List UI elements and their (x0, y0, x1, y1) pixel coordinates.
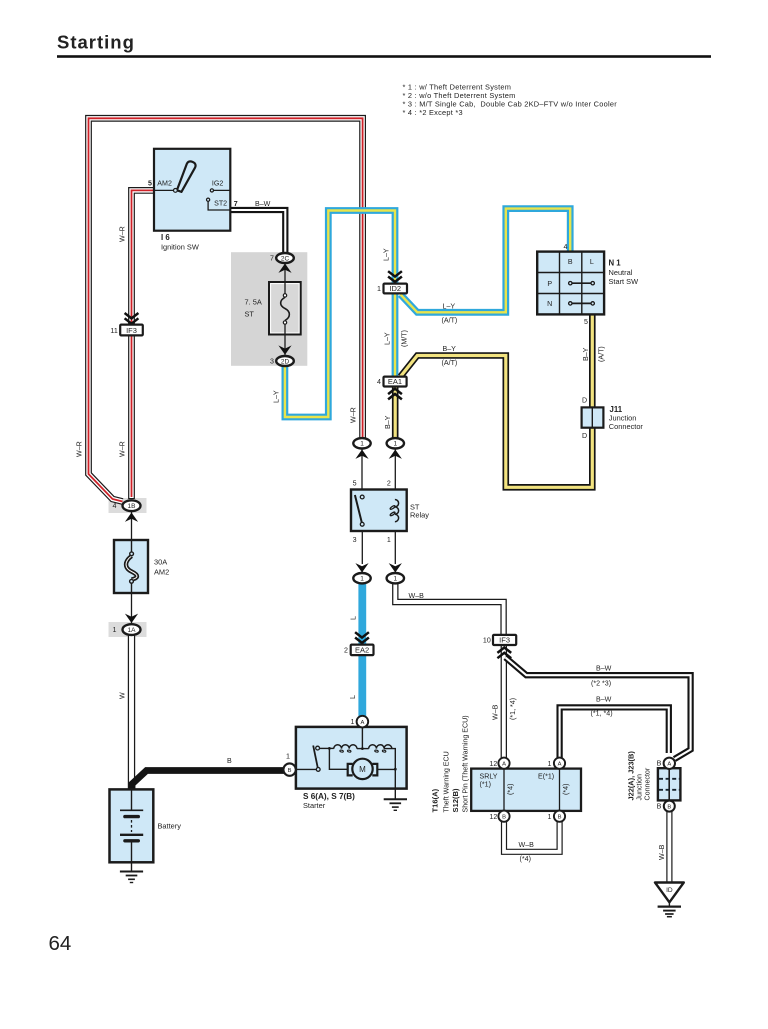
svg-text:7. 5A: 7. 5A (245, 298, 262, 307)
svg-text:1: 1 (387, 536, 391, 544)
svg-text:IG2: IG2 (212, 179, 223, 187)
svg-text:Connector: Connector (609, 422, 644, 431)
svg-text:P: P (547, 280, 552, 288)
svg-text:B: B (288, 768, 292, 774)
svg-text:A: A (360, 720, 364, 726)
svg-text:T16(A): T16(A) (431, 788, 440, 812)
svg-text:N: N (547, 300, 552, 308)
svg-text:B: B (667, 804, 671, 810)
svg-text:EA1: EA1 (388, 377, 402, 386)
svg-text:W–B: W–B (658, 844, 666, 860)
svg-text:S12(B): S12(B) (451, 788, 460, 813)
svg-text:B–W: B–W (255, 200, 271, 208)
svg-text:11: 11 (110, 327, 117, 335)
svg-text:(A/T): (A/T) (442, 359, 458, 367)
svg-text:EA2: EA2 (355, 646, 369, 655)
svg-text:A: A (667, 762, 671, 768)
svg-text:(*2 *3): (*2 *3) (591, 679, 611, 687)
svg-text:B–Y: B–Y (582, 347, 590, 361)
svg-text:B–W: B–W (596, 696, 612, 704)
svg-text:1: 1 (360, 441, 364, 448)
svg-text:W–R: W–R (119, 226, 127, 242)
svg-text:B–Y: B–Y (384, 415, 392, 429)
svg-text:SRLY: SRLY (480, 772, 498, 780)
svg-text:1A: 1A (128, 627, 137, 634)
svg-text:64: 64 (49, 932, 72, 955)
svg-text:W–R: W–R (76, 441, 84, 457)
svg-text:3: 3 (270, 357, 274, 365)
svg-text:(*1): (*1) (480, 781, 491, 789)
svg-text:W: W (119, 692, 127, 699)
svg-text:5: 5 (353, 480, 357, 488)
svg-text:4: 4 (113, 502, 117, 510)
svg-text:N 1: N 1 (609, 258, 622, 267)
svg-text:B–W: B–W (596, 665, 612, 673)
svg-text:Starter: Starter (303, 801, 326, 810)
svg-text:B: B (657, 760, 662, 768)
svg-text:1: 1 (393, 441, 397, 448)
svg-text:B: B (558, 814, 562, 820)
svg-text:W–R: W–R (119, 441, 127, 457)
svg-text:L–Y: L–Y (443, 303, 456, 311)
svg-text:Start SW: Start SW (609, 277, 639, 286)
svg-text:J11: J11 (610, 405, 623, 414)
svg-text:4: 4 (377, 378, 381, 386)
svg-text:ST: ST (245, 310, 255, 319)
svg-text:(M/T): (M/T) (401, 330, 409, 347)
svg-text:1: 1 (377, 285, 381, 293)
svg-text:(A/T): (A/T) (598, 346, 606, 362)
svg-text:1B: 1B (128, 503, 136, 510)
svg-text:1: 1 (113, 626, 117, 634)
svg-text:5: 5 (148, 179, 152, 187)
svg-text:Relay: Relay (410, 511, 429, 520)
svg-text:3: 3 (353, 536, 357, 544)
svg-text:Battery: Battery (158, 822, 182, 831)
svg-text:10: 10 (483, 637, 491, 645)
svg-text:W–B: W–B (519, 841, 535, 849)
svg-text:B: B (568, 258, 573, 266)
svg-text:1: 1 (393, 576, 397, 583)
svg-text:D: D (582, 432, 587, 440)
svg-text:4: 4 (564, 243, 568, 251)
svg-text:E(*1): E(*1) (538, 773, 554, 781)
svg-text:(*4): (*4) (507, 784, 515, 795)
svg-text:A: A (558, 761, 562, 767)
svg-text:7: 7 (270, 254, 274, 262)
svg-text:W–B: W–B (492, 704, 500, 720)
svg-text:D: D (582, 397, 587, 405)
svg-text:L–Y: L–Y (273, 390, 281, 403)
svg-text:B: B (657, 802, 662, 810)
svg-text:* 4 : *2 Except *3: * 4 : *2 Except *3 (403, 108, 463, 117)
svg-text:Connector: Connector (644, 767, 652, 800)
svg-text:(*1, *4): (*1, *4) (591, 710, 613, 718)
svg-text:(*4): (*4) (520, 855, 531, 863)
svg-text:B–Y: B–Y (443, 345, 457, 353)
svg-text:B: B (502, 814, 506, 820)
svg-text:W–R: W–R (350, 407, 358, 423)
svg-text:1: 1 (351, 718, 355, 726)
svg-text:(*4): (*4) (562, 784, 570, 795)
svg-text:A: A (502, 761, 506, 767)
svg-text:2D: 2D (281, 358, 290, 365)
svg-text:M: M (359, 765, 366, 774)
svg-text:2: 2 (344, 647, 348, 655)
svg-text:ST2: ST2 (214, 200, 227, 208)
svg-text:2: 2 (387, 480, 391, 488)
svg-text:(*1, *4): (*1, *4) (509, 698, 517, 720)
svg-text:Starting: Starting (57, 32, 135, 53)
svg-text:IF3: IF3 (499, 636, 510, 645)
svg-text:I 6: I 6 (161, 233, 170, 242)
svg-text:Theft Warning ECU: Theft Warning ECU (443, 751, 451, 812)
svg-text:12: 12 (489, 813, 497, 821)
svg-text:Ignition SW: Ignition SW (161, 243, 199, 252)
svg-text:Junction: Junction (636, 774, 644, 800)
svg-text:L: L (590, 258, 594, 266)
svg-text:L: L (350, 616, 358, 620)
svg-text:B: B (227, 757, 232, 765)
svg-text:Neutral: Neutral (609, 268, 633, 277)
svg-text:7: 7 (234, 200, 238, 208)
svg-text:J22(A), J23(B): J22(A), J23(B) (627, 751, 636, 801)
svg-text:IF3: IF3 (126, 326, 137, 335)
svg-text:AM2: AM2 (157, 179, 172, 187)
svg-text:S 6(A), S 7(B): S 6(A), S 7(B) (303, 792, 355, 801)
svg-text:ID: ID (666, 887, 673, 894)
svg-text:L: L (349, 695, 357, 699)
svg-text:12: 12 (489, 760, 497, 768)
svg-text:30A: 30A (154, 558, 167, 567)
svg-text:ID2: ID2 (389, 284, 401, 293)
svg-text:2C: 2C (281, 255, 290, 262)
svg-text:5: 5 (584, 318, 588, 326)
svg-text:1: 1 (548, 760, 552, 768)
svg-text:1: 1 (286, 753, 290, 761)
svg-text:AM2: AM2 (154, 568, 169, 577)
svg-text:W–B: W–B (409, 592, 425, 600)
svg-text:L–Y: L–Y (383, 248, 391, 261)
svg-text:L–Y: L–Y (384, 332, 392, 345)
svg-text:1: 1 (360, 576, 364, 583)
svg-text:1: 1 (548, 813, 552, 821)
svg-text:(A/T): (A/T) (442, 317, 458, 325)
svg-text:Short Pin (Theft Warning ECU): Short Pin (Theft Warning ECU) (462, 715, 470, 812)
